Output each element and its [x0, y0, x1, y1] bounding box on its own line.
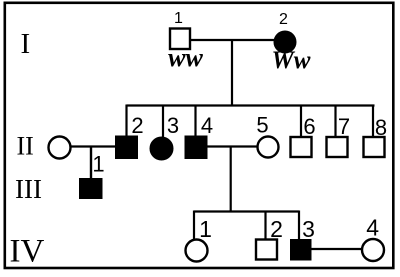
individual IV-3 (affected male square) — [291, 240, 312, 261]
wire: drop from II-4/II-5 to IV sibship — [230, 147, 232, 213]
individual II-8 (unaffected male square) — [364, 137, 385, 157]
svg-text:III: III — [15, 174, 42, 204]
svg-text:5: 5 — [256, 113, 268, 138]
wire: drop to II-8 — [372, 105, 374, 139]
individual II-3 (affected female circle) — [150, 137, 173, 160]
wire: drop to IV-3 — [298, 211, 300, 241]
wire: IV sibship line — [194, 210, 299, 212]
individual II-1 (unaffected female circle) — [49, 137, 71, 159]
svg-text:1: 1 — [199, 216, 212, 242]
wire: drop to IV-1 — [193, 211, 195, 241]
svg-text:II: II — [17, 132, 34, 161]
svg-text:ww: ww — [168, 43, 203, 72]
svg-text:4: 4 — [366, 215, 379, 241]
svg-text:IV: IV — [10, 234, 45, 270]
wire: I couple marriage line — [189, 39, 277, 41]
individual IV-1 (unaffected female circle) — [186, 240, 208, 262]
wire: II-4/II-5 marriage line — [206, 145, 259, 147]
wire: II-1/II-2 marriage line — [70, 145, 117, 147]
wire: I couple drop to II sibship — [231, 40, 233, 107]
svg-text:3: 3 — [167, 113, 179, 138]
individual IV-4 (unaffected female circle) — [362, 239, 384, 261]
svg-text:2: 2 — [279, 11, 288, 28]
wire: drop to IV-2 — [264, 211, 266, 241]
svg-text:Ww: Ww — [272, 47, 311, 74]
svg-text:3: 3 — [302, 216, 315, 242]
svg-text:2: 2 — [270, 216, 283, 242]
wire: drop to II-7 — [334, 105, 336, 139]
svg-text:I: I — [21, 28, 31, 60]
individual IV-2 (unaffected male square) — [256, 240, 277, 260]
wire: drop to II-3 — [162, 105, 164, 139]
individual I-1 (unaffected male square) — [170, 29, 190, 50]
wire: drop to II-2 — [125, 105, 127, 138]
svg-text:6: 6 — [303, 114, 315, 139]
svg-text:1: 1 — [174, 10, 183, 27]
individual III-1 (affected male square) — [80, 179, 103, 199]
svg-text:2: 2 — [131, 113, 143, 138]
individual II-2 (affected male square) — [116, 136, 138, 159]
wire: II sibship line — [127, 104, 375, 106]
individual II-7 (unaffected male square) — [327, 137, 348, 157]
svg-text:1: 1 — [92, 152, 104, 177]
individual II-5 (unaffected female circle) — [258, 137, 279, 158]
svg-text:8: 8 — [375, 115, 387, 140]
individual II-4 (affected male square) — [185, 136, 207, 159]
wire: drop to II-4 — [194, 105, 196, 138]
wire: drop from II-1/II-2 to III-1 — [90, 147, 92, 180]
svg-text:7: 7 — [338, 114, 350, 139]
individual I-2 (affected female circle) — [275, 32, 296, 53]
individual II-6 (unaffected male square) — [291, 137, 312, 157]
svg-text:4: 4 — [201, 113, 213, 138]
wire: drop to II-6 — [300, 105, 302, 139]
wire: IV-3/IV-4 marriage line — [310, 248, 363, 250]
